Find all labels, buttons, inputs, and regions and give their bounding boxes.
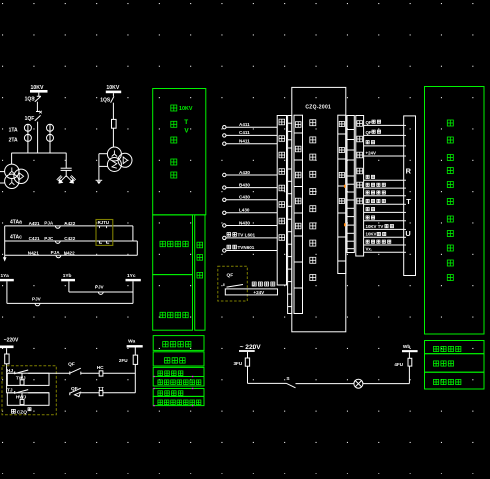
wire TQ to right bus xyxy=(103,392,135,394)
wire MX xyxy=(364,236,404,238)
terminal cells column C xyxy=(347,116,354,253)
svg-text:1Ya: 1Ya xyxy=(1,273,10,279)
signal lamp HL xyxy=(354,379,363,388)
svg-text:10KV: 10KV xyxy=(106,85,120,91)
label DY xyxy=(366,240,369,243)
svg-text:A430: A430 xyxy=(239,170,250,175)
green box: closing circuit xyxy=(153,367,204,376)
10KV busbar (feeder 1) xyxy=(30,90,48,93)
green box: remote signal circuit xyxy=(425,372,485,389)
svg-text:1QS: 1QS xyxy=(100,97,111,103)
terminal circle L430 xyxy=(223,211,226,214)
green text closing circuit xyxy=(158,371,163,376)
terminal circle N411 xyxy=(223,142,226,145)
orange marks on inner right column xyxy=(344,185,346,188)
green text closed-position relay xyxy=(158,400,163,405)
wire TV xyxy=(364,228,404,230)
wire row A xyxy=(28,372,49,374)
terminal strip: control protection signal terminals box xyxy=(277,116,286,286)
wire phase-a row xyxy=(7,302,133,304)
svg-text:N430: N430 xyxy=(239,220,250,225)
green text control power xyxy=(163,342,168,347)
RTU box xyxy=(404,116,416,276)
terminal strip D: remote control/signal terminals xyxy=(356,116,364,257)
CT 1TA right core xyxy=(47,124,54,131)
wire row B xyxy=(28,392,49,394)
label YX xyxy=(366,183,369,186)
wire QF remote-signal xyxy=(364,124,404,126)
busbar 1Yb xyxy=(61,279,75,281)
label GL xyxy=(366,175,369,178)
terminal circle C411 xyxy=(223,134,226,137)
wire YX xyxy=(364,187,404,189)
label reset xyxy=(366,141,369,144)
svg-text:1QF: 1QF xyxy=(25,116,35,122)
RTU terminal ticks xyxy=(404,124,406,126)
remote signal label xyxy=(252,282,256,286)
green box: voltage circuit xyxy=(153,275,193,331)
contact QF aux xyxy=(223,283,225,286)
svg-text:2TA: 2TA xyxy=(9,137,18,143)
svg-text:N422: N422 xyxy=(64,251,75,256)
CT 2TA left core xyxy=(24,134,31,141)
U1 inner right column text xyxy=(339,121,344,126)
wire to fuse 3FU xyxy=(247,352,249,358)
dashed box in-CZQ (olive) xyxy=(2,366,56,415)
svg-text:PJA: PJA xyxy=(51,250,61,255)
busbar signal source xyxy=(239,350,255,352)
label TZ xyxy=(366,208,369,211)
terminal circle TV L601 xyxy=(223,236,226,239)
svg-text:QF: QF xyxy=(68,362,75,368)
green text remote signal circuit xyxy=(434,379,439,384)
svg-text:QF: QF xyxy=(366,120,372,125)
terminal strip A cells column xyxy=(288,116,292,314)
wire capacitor to arresters xyxy=(65,170,67,177)
green text opening circuit xyxy=(158,391,163,396)
wire bus stub xyxy=(38,93,40,97)
wire 2FU down xyxy=(134,364,136,392)
wire B430 xyxy=(226,187,277,189)
wire C430 xyxy=(226,199,277,201)
svg-text:~ 220V: ~ 220V xyxy=(240,344,262,351)
wire T2 neutral to ground xyxy=(98,166,100,180)
svg-text:4TAa: 4TAa xyxy=(10,220,22,226)
wire N411 xyxy=(226,143,277,145)
meter RJTU box (olive) xyxy=(96,220,113,246)
fuse 3FU xyxy=(245,358,249,366)
busbar control source xyxy=(0,346,14,349)
green box: fuse (right) xyxy=(425,354,485,373)
terminal circle A411 xyxy=(223,126,226,129)
wire to transformer T1 xyxy=(11,153,13,164)
svg-text:3FU: 3FU xyxy=(234,361,243,366)
svg-text:Vx.: Vx. xyxy=(366,247,373,252)
wire C411 xyxy=(226,134,277,136)
wire capacitor branch xyxy=(65,153,67,168)
fuse 4FU xyxy=(408,358,412,366)
wire Wa to fuse 2FU xyxy=(134,348,136,356)
U1 inner left column text xyxy=(295,122,301,128)
wire cap TV N601 xyxy=(226,250,277,252)
branch HWJ loop xyxy=(7,393,49,406)
CT 1TA left core xyxy=(24,124,31,131)
svg-text:+24V: +24V xyxy=(366,150,376,155)
wire fuse down xyxy=(6,364,8,393)
terminal circle TV N601 xyxy=(223,249,226,252)
cable duct rect xyxy=(225,289,277,295)
svg-text:B430: B430 xyxy=(239,182,250,187)
green text open-position relay xyxy=(158,380,163,385)
svg-text:1TA: 1TA xyxy=(9,127,18,133)
wire QF to HC xyxy=(81,372,99,374)
svg-text:Wa: Wa xyxy=(128,339,135,345)
wire BS xyxy=(364,220,404,222)
wire A-phase CT row xyxy=(5,225,133,227)
green box: current circuit xyxy=(153,215,193,275)
capacitor C1 xyxy=(61,167,72,169)
busbar Wa xyxy=(127,345,143,347)
U1 center vertical title text xyxy=(310,120,316,126)
wire horizontal feeder1 bottom xyxy=(11,152,66,154)
svg-text:TV L601: TV L601 xyxy=(238,233,256,238)
svg-text:CZQ-2001: CZQ-2001 xyxy=(305,105,331,111)
svg-text:C411: C411 xyxy=(239,130,250,135)
wire A430 xyxy=(226,174,277,176)
controller U1 CZQ-2001 box xyxy=(292,87,346,331)
green text fuse xyxy=(165,358,170,363)
wire FZ xyxy=(364,203,404,205)
transformer T2 winding 3 (delta) xyxy=(118,153,132,167)
disconnect switch 1QS (feeder 2) xyxy=(111,96,114,102)
wire 3FU down-right xyxy=(247,366,249,383)
wire CT rows left vertical xyxy=(4,226,6,255)
svg-text:QF: QF xyxy=(366,130,372,135)
wire DY xyxy=(364,244,404,246)
busbar 1Ya xyxy=(0,279,14,281)
transformer T1 winding 1 (Y) xyxy=(5,164,19,178)
disconnect switch 1QS xyxy=(35,97,41,102)
wire 1Ya drop xyxy=(6,281,8,303)
svg-text:R: R xyxy=(406,167,412,176)
label cap TV N601 xyxy=(227,245,231,249)
wire 4FU to Wb xyxy=(408,352,410,358)
wire lamp to 4FU xyxy=(363,383,410,385)
wire HZ xyxy=(364,195,404,197)
terminal circle A430 xyxy=(223,173,226,176)
wire reset xyxy=(364,145,404,147)
svg-text:4FU: 4FU xyxy=(394,362,403,367)
green box: remote signal power xyxy=(425,341,485,354)
wire HC to right bus xyxy=(103,372,135,374)
svg-text:HC: HC xyxy=(97,365,104,371)
magenta grip dots xyxy=(153,376,154,377)
transformer T1 winding 2 (Y) xyxy=(5,174,19,188)
svg-text:N421: N421 xyxy=(28,251,39,256)
terminal circle C430 xyxy=(223,198,226,201)
wire +24V xyxy=(364,155,404,157)
wire to fuse xyxy=(112,103,114,120)
green box: capacitor control protection signal circuit xyxy=(425,87,485,335)
CT branch wire left xyxy=(27,125,29,154)
green vertical text terminal strip xyxy=(197,242,203,248)
svg-text:2FU: 2FU xyxy=(119,358,128,363)
svg-text:T: T xyxy=(184,119,188,126)
svg-text:RJTU: RJTU xyxy=(98,220,109,225)
svg-text:HWJ: HWJ xyxy=(16,394,27,399)
green box: fuse section xyxy=(153,352,204,366)
label FZ xyxy=(366,199,369,202)
wire CT rows right vertical xyxy=(132,226,134,241)
busbar Wb xyxy=(402,350,418,352)
ground (feeder 2) xyxy=(96,179,103,181)
terminal circle N430 xyxy=(223,224,226,227)
svg-text:10KV TV: 10KV TV xyxy=(366,224,384,229)
label BS xyxy=(366,216,369,219)
svg-text:N411: N411 xyxy=(239,139,250,144)
wire switch to lamp xyxy=(296,383,354,385)
green text fuse (right) xyxy=(434,361,439,366)
svg-text:C421: C421 xyxy=(29,236,40,241)
wire T1 secondary b xyxy=(0,182,5,184)
wire fuse to transformer T2 xyxy=(112,128,114,147)
green text remote signal power xyxy=(434,346,439,351)
svg-text:PJC: PJC xyxy=(44,236,54,241)
dashed box QF aux (olive) xyxy=(218,266,248,301)
U1 inner left terminal column xyxy=(294,115,303,313)
wire C-phase CT row xyxy=(5,240,133,242)
green box: 10KV TV cabinet main wiring xyxy=(153,89,206,215)
wire QS-QF xyxy=(36,102,38,112)
wire QF to TQ xyxy=(81,392,99,394)
green box: open-position relay xyxy=(153,377,204,387)
svg-text:V: V xyxy=(184,128,189,135)
svg-text:4TAc: 4TAc xyxy=(10,235,22,241)
wire T1 secondary a xyxy=(0,171,5,173)
U1 inner right terminal column xyxy=(338,115,346,273)
wire VX xyxy=(364,251,404,253)
CT 2TA right core xyxy=(47,134,54,141)
svg-text:Wb: Wb xyxy=(403,344,411,350)
svg-text:U: U xyxy=(405,229,410,238)
svg-text:A421: A421 xyxy=(29,221,40,226)
svg-text:10KV: 10KV xyxy=(366,232,377,237)
contact TJ xyxy=(14,391,16,394)
strip D vertical text xyxy=(357,121,363,127)
svg-text:C422: C422 xyxy=(64,236,75,241)
transformer T2 winding 1 (Y) xyxy=(107,147,121,161)
wire QF remote-open xyxy=(364,134,404,136)
transformer T2 winding 2 (zigzag) xyxy=(107,158,121,172)
CT branch wire right xyxy=(49,125,51,154)
green box: opening circuit xyxy=(153,389,204,397)
green text voltage circuit xyxy=(160,312,165,317)
svg-text:1Yc: 1Yc xyxy=(127,273,136,279)
wire N CT row xyxy=(5,254,138,256)
wire QF to junction xyxy=(37,122,39,153)
coil TWJ xyxy=(20,380,24,385)
svg-text:CZQ: CZQ xyxy=(17,409,27,415)
green box: closed-position relay xyxy=(153,396,204,405)
green box: terminal strip column xyxy=(195,215,205,330)
fuse 2FU xyxy=(133,355,137,364)
wire row B left xyxy=(7,392,15,394)
svg-text:TVN601: TVN601 xyxy=(238,245,255,250)
10KV busbar (feeder 2) xyxy=(106,91,121,94)
label HZ xyxy=(366,191,369,194)
ground arrow (CT neutral) xyxy=(4,255,6,258)
wire 1Yc drop xyxy=(132,281,134,303)
switch S xyxy=(287,383,296,387)
svg-text:QF: QF xyxy=(227,273,234,279)
green vertical text right column xyxy=(447,120,453,126)
green box: control power xyxy=(153,336,204,351)
wire A411 xyxy=(226,126,277,128)
contact QF tripping xyxy=(69,392,71,395)
meter terminal ticks xyxy=(99,226,109,243)
circuit breaker 1QF xyxy=(35,115,41,120)
wire row A to QF xyxy=(49,372,70,374)
wire GL xyxy=(364,179,404,181)
branch TWJ loop xyxy=(7,373,49,385)
svg-text:PJA: PJA xyxy=(44,221,54,226)
contact QF closing xyxy=(69,371,71,374)
wire TZ xyxy=(364,211,404,213)
svg-text:C430: C430 xyxy=(239,195,250,200)
wire phase-b row xyxy=(69,291,133,293)
svg-text:A422: A422 xyxy=(64,221,75,226)
svg-text:~220V: ~220V xyxy=(4,338,19,344)
label cap TV L601 xyxy=(227,233,231,237)
wire T2 neutral bracket xyxy=(99,153,108,155)
wire cap TV L601 xyxy=(226,237,277,239)
svg-text:PJV: PJV xyxy=(95,284,105,289)
svg-text:PJV: PJV xyxy=(32,296,42,301)
svg-text:10KV: 10KV xyxy=(179,106,193,112)
coil HC xyxy=(99,371,103,376)
terminal circle B430 xyxy=(223,186,226,189)
coil TQ xyxy=(99,390,103,395)
svg-text:1Yb: 1Yb xyxy=(63,273,72,279)
surge arrester F1 xyxy=(57,175,66,183)
svg-text:L430: L430 xyxy=(239,208,250,213)
wire row A left xyxy=(7,372,15,374)
svg-text:1QS: 1QS xyxy=(25,97,36,103)
coil HWJ xyxy=(20,399,24,404)
svg-text:T: T xyxy=(406,197,411,206)
contact HJ xyxy=(14,371,16,374)
wire to fuse 1FU xyxy=(6,348,8,354)
surge arrester F2 xyxy=(66,175,75,183)
busbar 1Yc xyxy=(126,279,141,281)
fuse FU1 (feeder 2) xyxy=(112,119,117,128)
green text current circuit xyxy=(160,241,165,246)
wire N430 xyxy=(226,225,277,227)
wire bus stub 2 xyxy=(112,93,114,96)
svg-text:A411: A411 xyxy=(239,122,250,127)
fuse 1FU xyxy=(5,354,9,364)
transformer T1 winding 3 (delta) xyxy=(14,169,28,183)
strip A vertical text xyxy=(279,119,285,125)
wire L430 xyxy=(226,212,277,214)
svg-text:+24V: +24V xyxy=(253,290,265,295)
wire 1Yb drop xyxy=(68,281,70,292)
green vertical text cabinet wiring xyxy=(171,105,177,111)
